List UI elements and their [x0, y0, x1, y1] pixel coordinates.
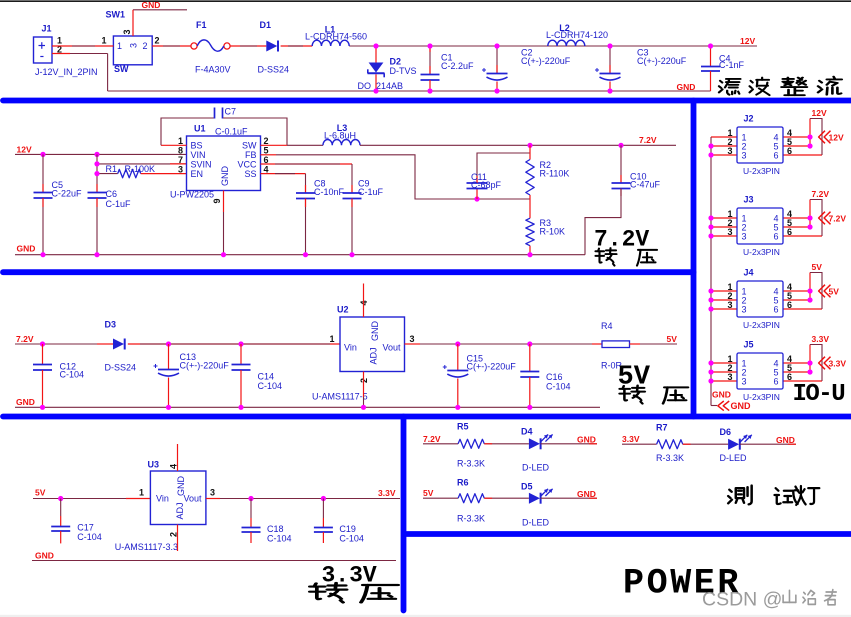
svg-text:J2: J2: [744, 114, 754, 124]
svg-text:R-110K: R-110K: [540, 169, 570, 179]
svg-text:6: 6: [787, 300, 792, 310]
svg-text:R6: R6: [457, 478, 469, 488]
svg-text:D-SS24: D-SS24: [105, 363, 137, 373]
svg-text:F1: F1: [196, 20, 207, 30]
svg-text:F-4A30V: F-4A30V: [195, 65, 231, 75]
svg-text:R-100K: R-100K: [125, 164, 156, 174]
svg-text:3: 3: [742, 376, 747, 386]
svg-text:C-2.2uF: C-2.2uF: [441, 61, 474, 71]
svg-text:L-CDRH74-120: L-CDRH74-120: [546, 30, 608, 40]
svg-text:D-TVS: D-TVS: [390, 66, 417, 76]
svg-text:2: 2: [168, 532, 178, 537]
svg-text:2: 2: [143, 41, 148, 51]
svg-text:EN: EN: [191, 169, 204, 179]
svg-text:6: 6: [773, 231, 778, 241]
svg-text:3: 3: [742, 231, 747, 241]
svg-text:U-2x3PIN: U-2x3PIN: [743, 166, 780, 176]
svg-text:VIN: VIN: [191, 150, 206, 160]
svg-text:C-104: C-104: [267, 534, 292, 544]
svg-text:5V: 5V: [423, 488, 434, 498]
svg-text:SS: SS: [244, 169, 256, 179]
svg-text:3: 3: [122, 29, 132, 34]
svg-text:5V: 5V: [667, 334, 678, 344]
svg-text:3: 3: [727, 146, 732, 156]
svg-text:6: 6: [773, 150, 778, 160]
svg-text:GND: GND: [16, 397, 35, 407]
svg-text:1: 1: [139, 488, 144, 498]
svg-text:5V: 5V: [35, 487, 46, 497]
svg-text:D5: D5: [521, 482, 533, 492]
svg-text:R-3.3K: R-3.3K: [457, 459, 485, 469]
svg-text:C-1uF: C-1uF: [358, 187, 384, 197]
svg-text:D1: D1: [260, 20, 272, 30]
svg-text:C14: C14: [258, 372, 275, 382]
svg-text:U-AMS1117-3.3: U-AMS1117-3.3: [115, 542, 178, 552]
svg-text:C18: C18: [267, 524, 284, 534]
svg-text:J-12V_IN_2PIN: J-12V_IN_2PIN: [35, 67, 98, 77]
svg-text:R4: R4: [601, 321, 613, 331]
svg-text:J3: J3: [744, 195, 754, 205]
svg-text:6: 6: [787, 227, 792, 237]
svg-text:SVIN: SVIN: [191, 160, 212, 170]
svg-text:5V: 5V: [812, 262, 823, 272]
svg-text:3: 3: [410, 334, 415, 344]
svg-text:GND: GND: [731, 401, 752, 411]
svg-text:1: 1: [178, 136, 183, 146]
svg-text:3: 3: [727, 300, 732, 310]
svg-text:1: 1: [117, 41, 122, 51]
svg-text:D-LED: D-LED: [522, 518, 550, 528]
svg-text:C(+-)-220uF: C(+-)-220uF: [467, 362, 517, 372]
svg-text:Vout: Vout: [382, 343, 401, 353]
svg-text:3.3V: 3.3V: [622, 434, 640, 444]
svg-text:12V: 12V: [829, 133, 844, 143]
svg-text:GND: GND: [776, 435, 795, 445]
svg-text:IO-U: IO-U: [793, 381, 845, 408]
svg-text:7.2V: 7.2V: [829, 214, 847, 224]
svg-text:3: 3: [727, 227, 732, 237]
svg-text:C-22uF: C-22uF: [52, 188, 83, 198]
svg-text:R-3.3K: R-3.3K: [656, 453, 684, 463]
svg-text:ADJ: ADJ: [368, 347, 378, 364]
svg-text:U1: U1: [194, 124, 206, 134]
svg-text:Vout: Vout: [183, 494, 202, 504]
svg-text:FB: FB: [245, 150, 257, 160]
svg-text:BS: BS: [191, 141, 203, 151]
svg-text:7.2V: 7.2V: [639, 135, 657, 145]
svg-text:U2: U2: [337, 305, 349, 315]
svg-text:8: 8: [178, 146, 183, 156]
svg-text:3: 3: [178, 165, 183, 175]
svg-text:3: 3: [742, 304, 747, 314]
svg-text:7.2V: 7.2V: [812, 189, 830, 199]
svg-text:7.2V: 7.2V: [423, 434, 441, 444]
svg-text:3: 3: [129, 43, 139, 48]
svg-text:2: 2: [155, 36, 160, 46]
svg-text:GND: GND: [142, 0, 161, 10]
svg-text:C-0.1uF: C-0.1uF: [215, 127, 248, 137]
svg-text:3.3V: 3.3V: [378, 488, 396, 498]
svg-text:6: 6: [787, 372, 792, 382]
svg-text:1: 1: [102, 36, 107, 46]
svg-text:L-CDRH74-560: L-CDRH74-560: [305, 32, 367, 42]
svg-text:C-104: C-104: [339, 534, 364, 544]
svg-text:Vin: Vin: [344, 343, 357, 353]
svg-text:GND: GND: [17, 244, 36, 254]
svg-text:7.2V: 7.2V: [16, 334, 34, 344]
svg-text:C6: C6: [106, 189, 118, 199]
svg-text:GND: GND: [712, 390, 731, 400]
svg-text:6: 6: [773, 376, 778, 386]
svg-text:U-2x3PIN: U-2x3PIN: [743, 247, 780, 257]
svg-text:C-104: C-104: [258, 381, 283, 391]
svg-text:GND: GND: [370, 321, 380, 342]
svg-text:12V: 12V: [740, 36, 755, 46]
svg-text:D-SS24: D-SS24: [258, 65, 290, 75]
svg-text:SW: SW: [114, 64, 129, 74]
svg-text:C-1nF: C-1nF: [719, 60, 745, 70]
svg-text:SW1: SW1: [106, 10, 126, 20]
svg-text:3.3V: 3.3V: [812, 334, 830, 344]
svg-text:SW: SW: [242, 141, 257, 151]
svg-text:CSDN @: CSDN @: [702, 589, 782, 611]
svg-text:C-104: C-104: [60, 370, 85, 380]
svg-text:1: 1: [329, 334, 334, 344]
svg-text:D4: D4: [521, 427, 533, 437]
svg-text:5: 5: [264, 146, 269, 156]
svg-text:D-LED: D-LED: [522, 463, 550, 473]
svg-text:C16: C16: [546, 372, 563, 382]
svg-text:D-LED: D-LED: [720, 453, 748, 463]
svg-text:2: 2: [264, 136, 269, 146]
svg-text:VCC: VCC: [237, 160, 257, 170]
svg-text:U-AMS1117-5: U-AMS1117-5: [312, 392, 368, 402]
svg-text:DO_214AB: DO_214AB: [358, 81, 404, 91]
svg-text:D6: D6: [720, 427, 732, 437]
svg-text:C-1uF: C-1uF: [106, 199, 132, 209]
svg-text:R7: R7: [656, 423, 668, 433]
svg-text:12V: 12V: [17, 145, 32, 155]
svg-text:C-10nF: C-10nF: [314, 187, 345, 197]
svg-text:ADJ: ADJ: [175, 502, 185, 519]
svg-text:3: 3: [210, 488, 215, 498]
svg-text:3: 3: [742, 150, 747, 160]
svg-text:7: 7: [178, 155, 183, 165]
svg-text:R1: R1: [106, 164, 118, 174]
svg-text:C7: C7: [225, 107, 237, 117]
svg-text:U3: U3: [148, 460, 160, 470]
svg-text:R-10K: R-10K: [540, 227, 566, 237]
svg-text:U-PW2205: U-PW2205: [170, 190, 214, 200]
svg-text:Vin: Vin: [156, 494, 169, 504]
svg-text:L-6.8uH: L-6.8uH: [324, 131, 356, 141]
svg-text:3: 3: [727, 372, 732, 382]
svg-text:C(+-)-220uF: C(+-)-220uF: [521, 56, 571, 66]
svg-text:C(+-)-220uF: C(+-)-220uF: [180, 361, 230, 371]
svg-text:GND: GND: [577, 435, 596, 445]
svg-text:C(+-)-220uF: C(+-)-220uF: [637, 56, 687, 66]
svg-text:7.2V: 7.2V: [594, 227, 649, 253]
svg-text:GND: GND: [35, 550, 54, 560]
svg-text:C-104: C-104: [77, 532, 102, 542]
svg-text:4: 4: [168, 464, 178, 469]
svg-text:C-104: C-104: [546, 382, 571, 392]
svg-text:12V: 12V: [812, 108, 827, 118]
svg-text:6: 6: [773, 304, 778, 314]
svg-text:R5: R5: [457, 422, 469, 432]
svg-text:3.3V: 3.3V: [829, 359, 847, 369]
svg-text:U-2x3PIN: U-2x3PIN: [743, 320, 780, 330]
svg-text:D3: D3: [105, 320, 117, 330]
svg-text:GND: GND: [220, 166, 230, 187]
svg-text:C-68pF: C-68pF: [471, 180, 502, 190]
svg-text:C-47uF: C-47uF: [630, 180, 661, 190]
svg-text:5V: 5V: [829, 287, 840, 297]
svg-text:J5: J5: [744, 340, 754, 350]
svg-text:6: 6: [787, 146, 792, 156]
svg-text:J4: J4: [744, 268, 754, 278]
svg-text:GND: GND: [677, 82, 696, 92]
svg-text:GND: GND: [577, 489, 596, 499]
svg-text:J1: J1: [42, 24, 52, 34]
svg-text:C17: C17: [77, 523, 94, 533]
svg-text:C19: C19: [339, 524, 356, 534]
svg-text:R-3.3K: R-3.3K: [457, 514, 485, 524]
